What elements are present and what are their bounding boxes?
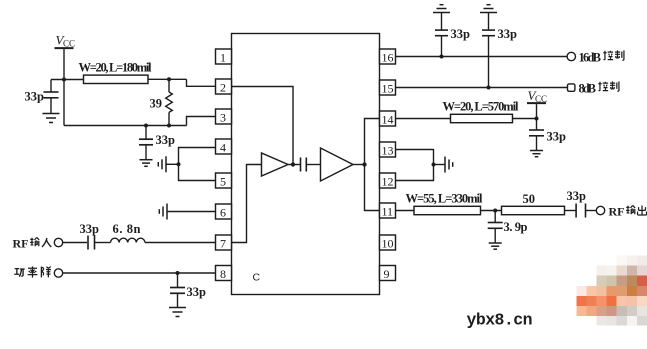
- wire pin2 to amp node: [232, 87, 294, 165]
- svg-text:33p: 33p: [451, 27, 471, 41]
- label RF input: [13, 237, 52, 251]
- pin 8: [216, 266, 232, 282]
- capacitor 33p (pin15, up): [482, 13, 517, 88]
- svg-text:33p: 33p: [25, 90, 45, 104]
- svg-text:33p: 33p: [498, 27, 518, 41]
- svg-text:9: 9: [384, 267, 390, 281]
- wire pin6: [168, 211, 216, 213]
- svg-text:W=20, L=570mil: W=20, L=570mil: [443, 100, 520, 114]
- pin 6: [216, 204, 232, 220]
- wire amp output to pin14 and pin11: [365, 119, 380, 211]
- node A2 output: [362, 162, 366, 166]
- label 8dB control: [579, 81, 619, 95]
- ground (pin15 cap, inverted): [480, 5, 497, 13]
- svg-text:10: 10: [382, 237, 394, 251]
- wire RF input to cap: [63, 242, 87, 244]
- svg-text:33p: 33p: [156, 133, 176, 147]
- svg-text:15: 15: [382, 82, 394, 96]
- svg-text:6: 6: [220, 206, 226, 220]
- microstrip 50: [502, 192, 565, 215]
- ground (3.9p cap): [489, 243, 502, 249]
- wire cap to inductor: [95, 242, 111, 244]
- power VCC (left): [55, 33, 76, 49]
- pin 16: [380, 49, 396, 65]
- watermark ybx8.cn: [467, 311, 533, 330]
- op-amp buffer A1: [262, 153, 294, 176]
- wire pin16 to terminal: [396, 56, 568, 58]
- svg-text:13: 13: [382, 144, 394, 158]
- microstrip W=20 L=570mil: [443, 100, 520, 123]
- op-amp buffer A2: [321, 148, 365, 181]
- terminal 8dB control: [568, 84, 575, 91]
- node resistor top: [167, 77, 171, 81]
- wire inductor to pin7: [145, 242, 216, 244]
- ground (left bypass cap): [43, 114, 60, 123]
- wire pin7 to amp input: [232, 165, 262, 243]
- capacitor 33p (pin16, up): [435, 13, 470, 57]
- node resistor bottom: [167, 124, 171, 128]
- node bottom rail cap junction: [144, 124, 148, 128]
- svg-text:1: 1: [220, 51, 226, 65]
- node A1 output: [291, 162, 295, 166]
- node pin4/5 loop: [177, 162, 181, 166]
- pin 10: [380, 235, 396, 251]
- pin 5: [216, 173, 232, 189]
- svg-text:16dB: 16dB: [579, 51, 602, 65]
- node pin13/12 loop: [432, 163, 436, 167]
- pin 9: [380, 266, 396, 282]
- capacitor 33p (RF input series): [80, 222, 100, 250]
- svg-text:33p: 33p: [187, 285, 207, 299]
- wire microstrip to VCC node: [513, 118, 537, 120]
- IC body U1: [232, 34, 380, 295]
- terminal 16dB control: [567, 52, 575, 60]
- svg-text:12: 12: [382, 175, 394, 189]
- power VCC (right): [527, 88, 547, 119]
- terminal power-down: [54, 269, 62, 277]
- wire node to cap and microstrip: [51, 79, 216, 86]
- pin 1: [216, 49, 232, 65]
- svg-text:33p: 33p: [567, 189, 587, 203]
- microstrip W=55 L=330mil: [406, 192, 484, 215]
- wire pin14 to microstrip: [396, 118, 451, 120]
- pin 2: [216, 79, 232, 95]
- svg-text:33p: 33p: [80, 222, 100, 236]
- capacitor 33p (bottom rail): [139, 126, 175, 160]
- capacitor 3.9p: [488, 211, 528, 243]
- wire pin11 to microstrip: [396, 210, 415, 212]
- capacitor 33p (right VCC bypass): [529, 119, 566, 151]
- pin 3: [216, 109, 232, 125]
- node pin15 cap junction: [487, 86, 491, 90]
- label RF output: [609, 205, 647, 219]
- svg-text:5: 5: [220, 175, 226, 189]
- svg-text:W=55, L=330mil: W=55, L=330mil: [406, 192, 484, 206]
- watermark C inside IC: [253, 272, 261, 284]
- svg-text:50: 50: [523, 192, 536, 206]
- svg-text:RF: RF: [13, 237, 29, 251]
- wire power-down to pin8: [63, 272, 216, 274]
- wire bottom rail to pin3: [64, 117, 216, 126]
- svg-text:8dB: 8dB: [579, 82, 597, 96]
- terminal RF output: [596, 206, 604, 214]
- node output matching: [493, 209, 497, 213]
- capacitor coupling (internal): [293, 158, 321, 172]
- pin 4: [216, 139, 232, 155]
- svg-text:33p: 33p: [547, 130, 567, 144]
- ground (pin6, sideways): [159, 204, 167, 220]
- wire pin4-pin5 loop: [179, 148, 216, 181]
- watermark mosaic: [576, 256, 647, 326]
- ground (right VCC cap): [530, 151, 543, 157]
- pin 15: [380, 80, 396, 96]
- pin 7: [216, 235, 232, 251]
- node pin8 cap junction: [176, 271, 180, 275]
- label power-down (gong lv jiang): [14, 266, 51, 277]
- ground (pin8 cap): [169, 308, 186, 317]
- svg-text:C: C: [253, 272, 261, 284]
- capacitor 33p (output series): [567, 189, 597, 218]
- microstrip W=20 L=180mil: [79, 61, 153, 84]
- ground (pin16 cap, inverted): [433, 5, 450, 13]
- svg-text:11: 11: [382, 205, 394, 219]
- wire microstrip to node: [481, 210, 502, 212]
- pin 12: [380, 173, 396, 189]
- svg-text:W=20, L=180mil: W=20, L=180mil: [79, 61, 153, 75]
- wire VCC rail down: [63, 49, 65, 126]
- svg-text:14: 14: [382, 113, 394, 127]
- ground (bottom rail cap): [140, 160, 153, 167]
- node pin14 VCC junction: [535, 117, 539, 121]
- ground (pin13/12 loop, sideways): [434, 157, 453, 173]
- svg-text:ybx8.cn: ybx8.cn: [467, 311, 533, 330]
- svg-text:3: 3: [220, 111, 226, 125]
- capacitor 33p (left bypass): [25, 80, 59, 114]
- wire microstrip to output cap: [565, 210, 576, 212]
- inductor 6.8n: [111, 222, 145, 243]
- svg-text:16: 16: [382, 51, 394, 65]
- svg-text:CC: CC: [63, 39, 75, 49]
- resistor 39: [150, 79, 173, 125]
- svg-text:6. 8n: 6. 8n: [113, 222, 141, 236]
- wire pin15 to terminal: [396, 87, 568, 89]
- capacitor 33p (pin8 bypass): [170, 273, 206, 307]
- ground (pin4/5 loop, sideways): [158, 156, 178, 172]
- svg-text:RF: RF: [609, 205, 625, 219]
- wire pin13-pin12 loop: [396, 150, 434, 181]
- pin 11: [380, 203, 396, 219]
- node pin16 cap junction: [440, 55, 444, 59]
- svg-text:2: 2: [220, 81, 226, 95]
- pin 13: [380, 142, 396, 158]
- svg-text:4: 4: [220, 141, 226, 155]
- svg-text:7: 7: [220, 237, 226, 251]
- svg-text:8: 8: [220, 267, 226, 281]
- pin 14: [380, 111, 396, 127]
- node VCC junction: [62, 78, 66, 82]
- label 16dB control: [579, 50, 624, 64]
- svg-text:39: 39: [150, 97, 163, 111]
- svg-text:3. 9p: 3. 9p: [504, 220, 528, 234]
- terminal RF input: [54, 238, 62, 246]
